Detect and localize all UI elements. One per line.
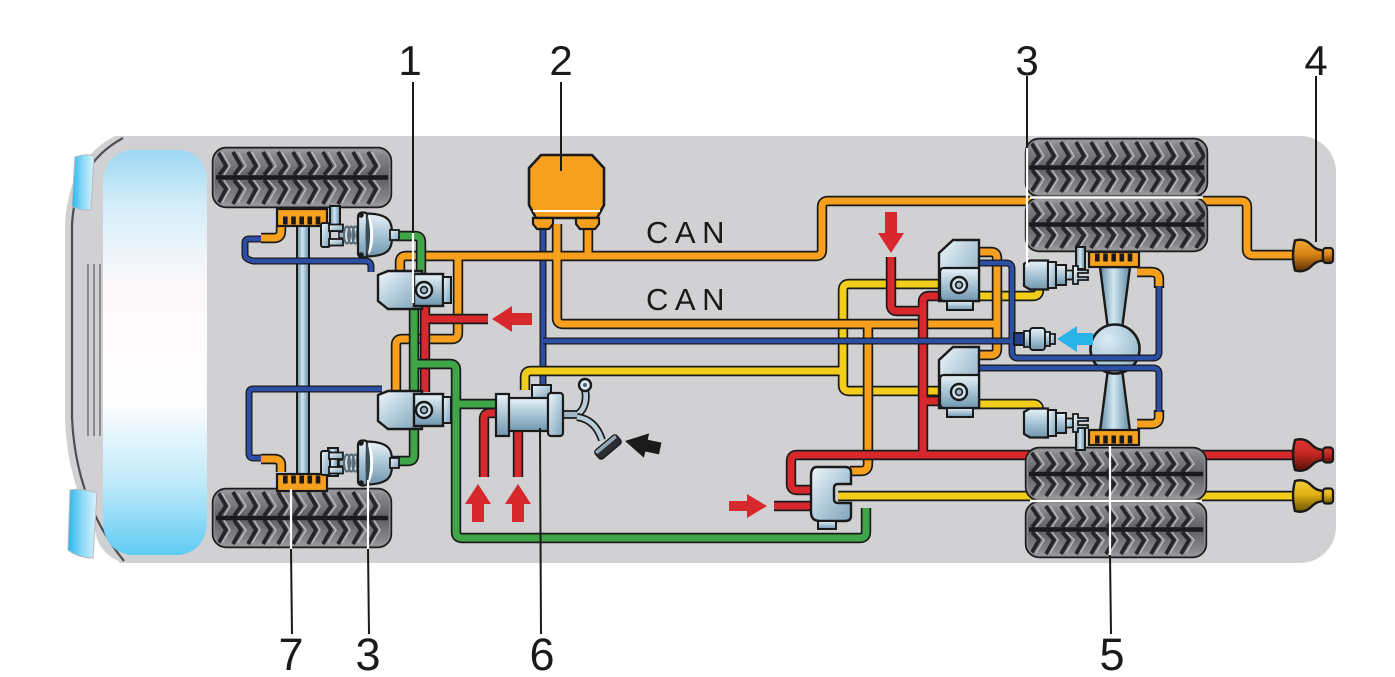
svg-text:CAN: CAN [646, 215, 731, 250]
svg-text:1: 1 [398, 37, 421, 84]
svg-text:5: 5 [1099, 629, 1124, 677]
svg-text:7: 7 [278, 629, 303, 677]
svg-text:3: 3 [1015, 37, 1038, 84]
svg-text:2: 2 [549, 37, 572, 84]
svg-text:4: 4 [1304, 37, 1327, 84]
svg-text:CAN: CAN [646, 282, 731, 317]
svg-text:3: 3 [355, 629, 380, 677]
svg-text:6: 6 [529, 629, 554, 677]
